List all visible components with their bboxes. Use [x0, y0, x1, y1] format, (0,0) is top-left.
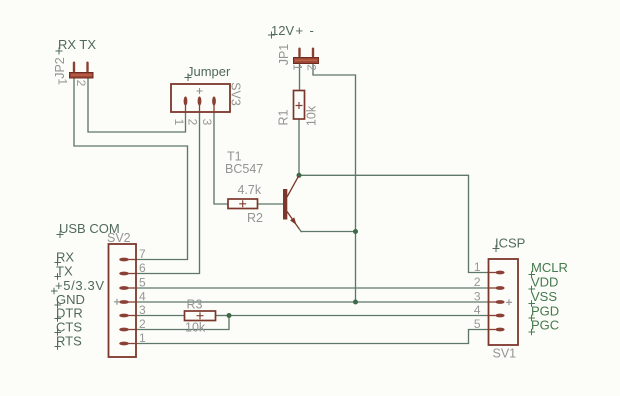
connector SV3 (Jumper): [171, 84, 230, 112]
svg-text:7: 7: [139, 247, 146, 261]
node label USB COM: [57, 221, 120, 238]
svg-text:2: 2: [74, 80, 88, 87]
svg-text:R3: R3: [187, 298, 203, 312]
wire R3 right to junction D4: [216, 315, 230, 317]
svg-text:JP2: JP2: [53, 57, 67, 79]
net label +5/3.3V: [51, 278, 104, 294]
svg-text:2: 2: [305, 64, 319, 71]
net label MCLR: [529, 260, 568, 278]
svg-text:VSS: VSS: [531, 289, 557, 304]
wire SV2.3 to R3 left (net DTR): [136, 315, 185, 317]
net label GND: [55, 292, 85, 308]
net label RTS: [55, 334, 83, 350]
svg-text:1: 1: [172, 119, 186, 126]
svg-text:3: 3: [139, 303, 146, 317]
junction D3 GND node: [353, 300, 358, 305]
svg-text:PGD: PGD: [531, 304, 559, 319]
svg-text:5: 5: [139, 276, 146, 290]
svg-text:RX TX: RX TX: [58, 37, 96, 52]
svg-text:4.7k: 4.7k: [238, 183, 262, 197]
wire SV2.1 to SV1.5 (net RTS/PGC): [136, 330, 489, 344]
connector JP1: [294, 48, 319, 64]
svg-text:12V+-: 12V+-: [271, 23, 314, 38]
wire T1 emitter to junction D2: [299, 228, 356, 232]
net label CTS: [55, 320, 83, 336]
connector SV1 (ICSP): [489, 259, 519, 345]
node label Jumper: [185, 64, 232, 81]
svg-text:4: 4: [139, 290, 146, 304]
svg-text:1: 1: [291, 64, 305, 71]
node label ICSP: [493, 236, 526, 253]
wire SV2.4 to SV1.3 (net GND): [136, 301, 489, 303]
svg-text:ICSP: ICSP: [495, 236, 525, 251]
svg-text:3: 3: [474, 290, 481, 304]
svg-text:1: 1: [474, 260, 481, 274]
junction D1 collector node: [297, 173, 302, 178]
svg-text:VDD: VDD: [531, 275, 558, 290]
junction D2 emitter node: [353, 229, 358, 234]
svg-text:SV1: SV1: [493, 347, 517, 361]
wire SV3.3 to R2 left: [214, 112, 228, 204]
wire SV2.5 to SV1.2 (net +5/3.3V): [136, 287, 489, 289]
svg-text:USB COM: USB COM: [59, 221, 120, 236]
svg-text:R2: R2: [247, 211, 263, 225]
wire JP1.2 down to junction D3 (net 12V-): [313, 64, 356, 303]
wire JP1.1 to R1 top: [299, 64, 301, 91]
net label VSS: [529, 289, 558, 307]
svg-text:Jumper: Jumper: [187, 64, 231, 79]
svg-text:R1: R1: [277, 109, 291, 125]
wire JP2.2 to SV3.1 (net A): [88, 78, 186, 132]
svg-text:2: 2: [139, 317, 146, 331]
net label PGD: [529, 304, 560, 322]
svg-text:MCLR: MCLR: [531, 260, 568, 275]
node label 12V + -: [268, 23, 314, 39]
svg-text:JP1: JP1: [277, 44, 291, 66]
svg-text:BC547: BC547: [225, 162, 263, 176]
wire JP2.1 to SV2.7 (net RX): [74, 78, 188, 260]
connector SV2 (USB COM): [109, 244, 137, 357]
net label RX: [55, 250, 75, 266]
node label RX TX: [56, 37, 97, 55]
svg-text:6: 6: [139, 261, 146, 275]
wire SV3.2 to SV2.6 (net TX): [136, 112, 200, 274]
svg-text:10k: 10k: [185, 321, 206, 335]
net label VDD: [529, 275, 559, 293]
resistor R1: [294, 91, 305, 120]
connector JP2: [70, 62, 94, 79]
resistor R2: [228, 199, 258, 209]
junction D4 R3/CTS node: [227, 313, 232, 318]
svg-text:1: 1: [139, 331, 146, 345]
svg-text:10k: 10k: [305, 105, 319, 126]
svg-text:SV3: SV3: [229, 82, 243, 106]
resistor R3: [185, 311, 216, 321]
svg-text:4: 4: [474, 303, 481, 317]
svg-text:3: 3: [200, 119, 214, 126]
wire SV2.2 to junction D4 (net CTS): [136, 316, 229, 330]
net label DTR: [55, 306, 83, 322]
net label TX: [55, 264, 73, 280]
wire junction D4 to SV1.4 (net PGD): [229, 315, 489, 317]
svg-text:2: 2: [474, 275, 481, 289]
svg-text:5: 5: [474, 317, 481, 331]
wire R2 right to T1 base: [258, 203, 284, 205]
transistor T1: [283, 176, 299, 229]
wire R1 bottom to junction D1: [298, 119, 300, 175]
wire junction D1 to SV1.1 (net MCLR): [299, 175, 489, 272]
svg-text:2: 2: [186, 119, 200, 126]
net label PGC: [529, 318, 560, 336]
svg-text:+5/3.3V: +5/3.3V: [55, 278, 104, 293]
svg-text:PGC: PGC: [531, 318, 559, 333]
